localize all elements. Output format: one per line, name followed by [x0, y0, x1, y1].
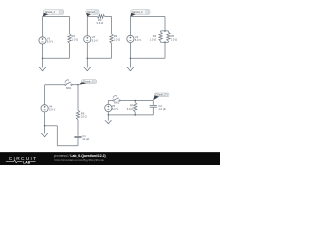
capacitor C1	[74, 134, 89, 141]
svg-text:1.0 Ω: 1.0 Ω	[150, 37, 157, 41]
resistor R5	[167, 31, 177, 42]
svg-text:5.0 V: 5.0 V	[47, 40, 53, 44]
resistor R1	[68, 34, 78, 43]
wire	[129, 42, 131, 58]
footer circuit url text	[55, 158, 105, 162]
wire	[42, 44, 44, 59]
capacitor C2	[150, 104, 167, 111]
wire	[45, 125, 58, 127]
node junction	[134, 100, 136, 102]
wire	[161, 30, 169, 32]
node junction	[164, 42, 166, 44]
wire	[164, 17, 166, 31]
node junction	[164, 30, 166, 32]
wire	[111, 16, 113, 33]
wire	[44, 112, 46, 126]
node junction	[44, 125, 46, 127]
wire	[129, 17, 131, 36]
node Circuit_4 label	[79, 79, 97, 85]
svg-text:Circuit_4: Circuit_4	[83, 79, 94, 83]
wire	[77, 120, 79, 136]
resistor R7	[127, 101, 137, 115]
svg-text:1.0 Ω: 1.0 Ω	[171, 37, 178, 41]
resistor R4	[150, 31, 163, 42]
svg-text:5.0 V: 5.0 V	[49, 108, 55, 112]
voltage source V3	[127, 35, 141, 43]
wire	[164, 42, 166, 58]
svg-text:1.0 Ω: 1.0 Ω	[114, 37, 121, 41]
node junction	[42, 57, 44, 59]
wire	[42, 17, 44, 38]
wire	[107, 111, 109, 115]
ground	[39, 58, 46, 70]
switch SW2	[113, 96, 120, 105]
wire	[111, 43, 113, 58]
svg-text:5.0 V: 5.0 V	[112, 107, 118, 111]
wire	[77, 85, 79, 111]
footer bar	[0, 152, 220, 165]
svg-text:http://circuitlab.com/c/8gy46m: http://circuitlab.com/c/8gy46my9hunk	[55, 158, 105, 162]
wire	[87, 57, 111, 59]
node Circuit_5 label	[153, 93, 169, 101]
voltage source V5	[105, 104, 119, 112]
wire	[120, 100, 154, 102]
node junction	[134, 114, 136, 116]
ground	[84, 58, 91, 70]
svg-text:3.9 Ω: 3.9 Ω	[96, 21, 103, 25]
wire	[43, 57, 70, 59]
wire	[152, 101, 154, 105]
wire	[105, 15, 112, 17]
node junction	[130, 57, 132, 59]
wire	[108, 114, 153, 116]
resistor R6	[76, 110, 86, 119]
svg-text:5.0 V: 5.0 V	[92, 38, 98, 42]
CircuitLab logo	[6, 156, 38, 164]
ground	[105, 115, 112, 124]
wire	[69, 43, 71, 58]
wire	[87, 15, 97, 17]
wire	[108, 100, 113, 102]
wire	[44, 85, 46, 105]
voltage source V2	[84, 35, 98, 43]
svg-text:SW2: SW2	[114, 101, 120, 105]
svg-text:10 µF: 10 µF	[82, 137, 89, 141]
wire	[45, 84, 66, 86]
node junction	[77, 84, 79, 86]
wire	[69, 17, 71, 34]
wire	[107, 101, 109, 105]
svg-text:3.9 Ω: 3.9 Ω	[127, 107, 134, 111]
svg-text:Circuit_1: Circuit_1	[45, 10, 56, 14]
node junction	[87, 57, 89, 59]
footer circuit title text	[54, 154, 106, 158]
node Circuit_1 label	[43, 10, 64, 17]
svg-text:SW1: SW1	[66, 86, 72, 90]
wire	[57, 145, 78, 147]
wire	[161, 41, 169, 43]
voltage source V4	[41, 104, 55, 112]
ground	[41, 126, 48, 137]
wire	[86, 16, 88, 36]
wire	[130, 57, 165, 59]
node junction	[108, 114, 110, 116]
wire	[152, 107, 154, 115]
svg-text:1.0 µF: 1.0 µF	[158, 107, 166, 111]
switch SW1	[65, 80, 72, 90]
svg-text:LAB: LAB	[23, 160, 31, 164]
ground	[127, 58, 134, 70]
svg-text:10 Ω: 10 Ω	[81, 115, 87, 119]
node Circuit_2 label	[86, 10, 99, 17]
wire	[43, 16, 70, 18]
resistor R2	[96, 15, 104, 26]
wire	[130, 16, 165, 18]
svg-text:1.0 Ω: 1.0 Ω	[72, 37, 79, 41]
wire	[86, 43, 88, 59]
wire	[56, 126, 58, 146]
resistor R3	[110, 34, 120, 43]
wire	[77, 138, 79, 146]
wire	[72, 84, 79, 86]
voltage source V1	[39, 36, 53, 44]
node Circuit_3 label	[130, 10, 150, 17]
svg-text:Circuit_3: Circuit_3	[132, 10, 143, 14]
svg-text:5.0 V: 5.0 V	[135, 38, 141, 42]
